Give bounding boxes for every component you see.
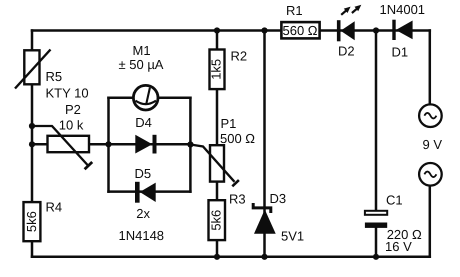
capacitor C1 bottom plate — [365, 223, 387, 228]
svg-text:D3: D3 — [270, 191, 287, 206]
AC source terminal lower — [419, 163, 442, 186]
svg-text:5k6: 5k6 — [209, 210, 224, 231]
wire: meter branch — [109, 96, 191, 99]
wire: loop right vertical — [189, 98, 192, 192]
meter M1 needle — [146, 88, 150, 104]
junction dot bottom rail / C1 column — [373, 254, 379, 260]
diode D4 triangle — [135, 135, 152, 154]
zener diode D3 bar with hooks — [253, 203, 271, 213]
potentiometer P2 body — [48, 136, 90, 152]
diode D1 cathode bar — [392, 20, 395, 40]
svg-text:16 V: 16 V — [385, 239, 412, 254]
junction dot loop right / P1 wiper — [187, 141, 193, 147]
svg-text:5V1: 5V1 — [281, 229, 304, 244]
svg-text:2x: 2x — [136, 206, 150, 221]
wire: D3 zener column — [263, 31, 266, 257]
svg-text:C1: C1 — [386, 193, 403, 208]
svg-text:± 50 µA: ± 50 µA — [119, 57, 164, 72]
diode D5 cathode bar — [135, 182, 140, 203]
svg-text:R4: R4 — [46, 200, 63, 215]
svg-text:1N4148: 1N4148 — [119, 228, 165, 243]
LED D2 triangle — [341, 21, 355, 40]
zener diode D3 triangle — [254, 210, 276, 234]
meter M1 scale arc — [135, 101, 156, 105]
wire: left rail — [31, 31, 34, 257]
trimmer P1 wiper arm — [190, 145, 234, 182]
AC source lower sine — [424, 172, 436, 178]
wire: right rail lower segment — [429, 174, 432, 256]
junction dot left rail / D4 row — [29, 141, 35, 147]
svg-text:1N4001: 1N4001 — [380, 2, 426, 17]
resistor R5 (KTY10 sensor) body — [24, 50, 39, 84]
trimmer P1 body — [210, 145, 224, 181]
junction dot top rail / R2 column — [214, 27, 220, 33]
svg-text:P2: P2 — [65, 102, 81, 117]
AC source terminal upper — [419, 104, 442, 127]
svg-text:10 k: 10 k — [59, 118, 84, 133]
junction dot bottom rail / R3 column — [214, 254, 220, 260]
meter M1 body — [133, 85, 158, 110]
diode D1 triangle — [396, 21, 413, 40]
svg-text:1k5: 1k5 — [209, 59, 224, 80]
resistor R4 body — [24, 202, 41, 241]
wire: top rail — [32, 29, 430, 32]
wire: C1 column lower — [375, 228, 378, 257]
wire: D5 row — [109, 190, 191, 193]
junction dot top rail / D3 column — [261, 27, 267, 33]
junction dot loop left / D4 row — [105, 141, 111, 147]
resistor R3 body — [209, 200, 226, 240]
svg-text:D1: D1 — [392, 45, 409, 60]
junction dot top rail / C1 column — [373, 27, 379, 33]
capacitor C1 top plate — [365, 211, 387, 215]
svg-text:5k6: 5k6 — [24, 211, 39, 232]
wire: D4 row — [32, 143, 190, 146]
wire: C1 column upper — [375, 31, 378, 212]
svg-text:R3: R3 — [229, 192, 246, 207]
LED D2 emission arrow 2 — [352, 5, 361, 13]
svg-text:R5: R5 — [46, 69, 63, 84]
wire: R2/P1/R3 column — [216, 31, 219, 257]
potentiometer P2 wiper end bar — [85, 162, 93, 169]
AC source upper sine — [424, 113, 436, 119]
resistor R2 body — [210, 50, 225, 90]
junction dot bottom rail / D3 column — [261, 254, 267, 260]
svg-text:D5: D5 — [135, 166, 152, 181]
svg-text:R2: R2 — [231, 49, 248, 64]
LED D2 cathode bar — [337, 20, 341, 41]
LED D2 emission arrow 1 — [341, 7, 350, 15]
junction dot left rail / P2 wiper — [29, 123, 35, 129]
potentiometer P2 wiper arm — [32, 126, 88, 166]
diode D4 cathode bar — [153, 135, 157, 154]
wire: bottom rail — [32, 256, 430, 259]
diode D5 triangle — [140, 183, 156, 202]
svg-text:500 Ω: 500 Ω — [220, 131, 255, 146]
svg-text:D2: D2 — [338, 44, 355, 59]
svg-text:P1: P1 — [221, 116, 237, 131]
svg-text:560 Ω: 560 Ω — [282, 23, 317, 38]
sensor R5 diagonal stroke — [15, 50, 51, 89]
svg-text:9 V: 9 V — [423, 137, 443, 152]
resistor R1 body — [281, 22, 319, 38]
wire: loop left vertical — [107, 98, 110, 192]
svg-text:M1: M1 — [133, 43, 151, 58]
svg-text:KTY 10: KTY 10 — [46, 86, 89, 101]
wire: right rail upper segment — [429, 31, 432, 116]
svg-text:D4: D4 — [135, 115, 152, 130]
svg-text:R1: R1 — [286, 3, 303, 18]
trimmer P1 wiper end bar — [232, 180, 239, 186]
